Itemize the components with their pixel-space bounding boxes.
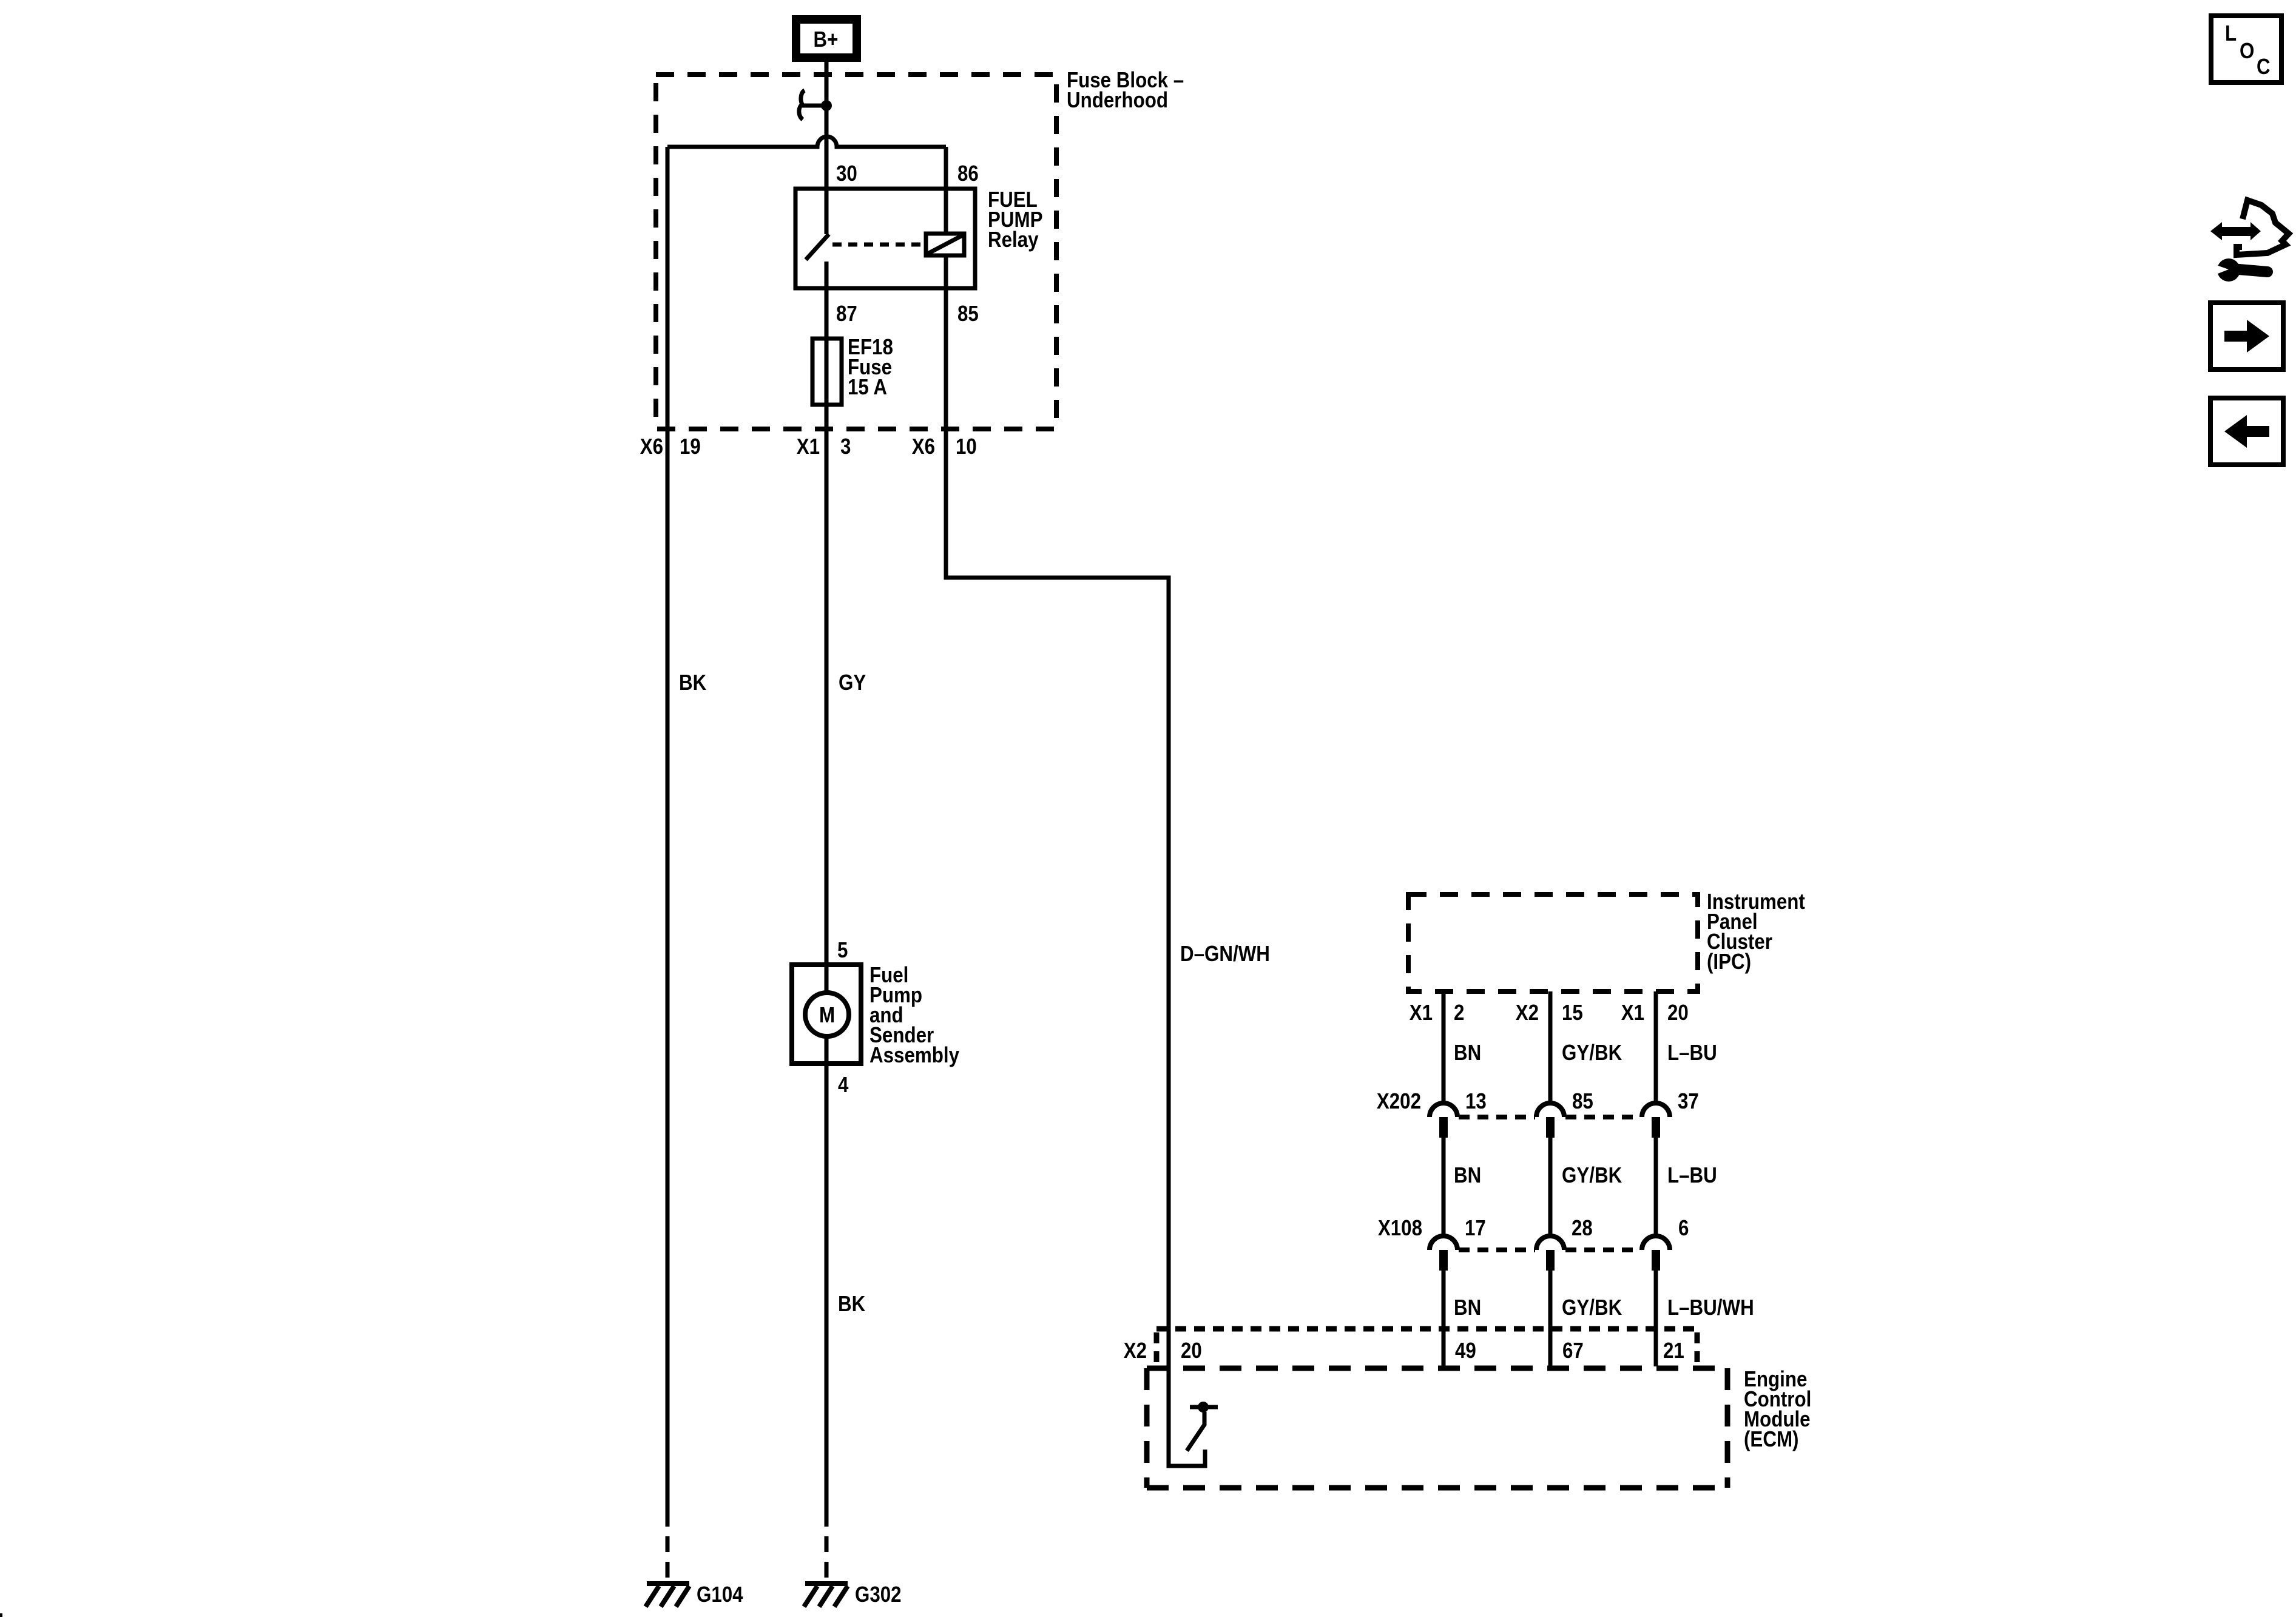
wire relay pin 87 through fuse to pump	[825, 262, 829, 993]
svg-text:86: 86	[957, 161, 979, 186]
svg-text:GY/BK: GY/BK	[1562, 1163, 1622, 1187]
wire bus with hop over pin30 wire	[667, 137, 946, 147]
svg-text:BN: BN	[1454, 1163, 1481, 1187]
connector X108 terminal arcs	[1430, 1236, 1670, 1250]
svg-text:X1: X1	[1410, 1000, 1433, 1025]
connector X108 dashed line	[1459, 1247, 1641, 1252]
svg-text:X108: X108	[1378, 1215, 1422, 1240]
svg-text:M: M	[819, 1002, 835, 1027]
connector label X2 15	[1516, 1000, 1583, 1025]
svg-text:L–BU: L–BU	[1667, 1163, 1717, 1187]
svg-text:B+: B+	[814, 27, 839, 52]
svg-text:3: 3	[840, 434, 851, 459]
svg-text:(IPC): (IPC)	[1707, 949, 1751, 974]
connector X108 pins	[1439, 1250, 1660, 1271]
svg-text:GY: GY	[839, 670, 866, 695]
relay control dashed line	[832, 243, 924, 247]
LOC icon box	[2211, 16, 2281, 83]
wire L-BU/WH X108 to ECM	[1654, 1271, 1658, 1366]
svg-text:5: 5	[837, 937, 848, 962]
wire GY/BK X202 to X108	[1548, 1138, 1553, 1236]
fuse EF18 body	[812, 339, 842, 405]
svg-text:Relay: Relay	[988, 227, 1039, 252]
forward arrow icon box	[2210, 303, 2283, 370]
wire IPC X1-2 BN	[1442, 991, 1446, 1103]
svg-text:BN: BN	[1454, 1295, 1481, 1320]
label X2 20	[1124, 1338, 1202, 1363]
wire L-BU X202 to X108	[1654, 1138, 1658, 1236]
wire GY/BK X108 to ECM	[1548, 1271, 1553, 1366]
connector X202 pins	[1439, 1117, 1660, 1138]
wire B+ to relay pin 30	[825, 62, 829, 234]
svg-text:BK: BK	[679, 670, 706, 695]
svg-text:L: L	[2225, 21, 2237, 46]
wire dashed to ground G302	[825, 1511, 829, 1582]
svg-text:6: 6	[1678, 1215, 1689, 1240]
svg-text:GY/BK: GY/BK	[1562, 1040, 1622, 1065]
svg-text:D–GN/WH: D–GN/WH	[1180, 941, 1270, 966]
svg-text:4: 4	[838, 1072, 848, 1097]
svg-text:G302: G302	[855, 1582, 902, 1607]
wire relay pin 86	[944, 147, 948, 234]
svg-text:L–BU: L–BU	[1667, 1040, 1717, 1065]
svg-text:X2: X2	[1516, 1000, 1539, 1025]
wire BK left branch vertical	[666, 147, 670, 1511]
svg-text:37: 37	[1678, 1089, 1699, 1113]
svg-text:GY/BK: GY/BK	[1562, 1295, 1622, 1320]
wire IPC X1-20 L-BU	[1654, 991, 1658, 1103]
tool icon wrench	[2215, 258, 2267, 282]
wire BN X108 to ECM	[1442, 1271, 1446, 1366]
tool icon double arrow	[2210, 222, 2261, 240]
connector X202 terminal arcs	[1430, 1103, 1670, 1117]
power symbol B+	[792, 15, 861, 62]
fusible link hook symbol	[799, 90, 805, 120]
svg-text:10: 10	[956, 434, 977, 459]
wire BN X202 to X108	[1442, 1138, 1446, 1236]
svg-text:21: 21	[1663, 1338, 1684, 1363]
svg-text:L–BU/WH: L–BU/WH	[1667, 1295, 1754, 1320]
ECM switch junction dot	[1198, 1402, 1209, 1413]
connector label X1 3	[797, 434, 851, 459]
ground G302	[804, 1584, 848, 1607]
connector X202 dashed line	[1459, 1115, 1641, 1119]
junction dot	[821, 100, 832, 111]
svg-text:13: 13	[1465, 1089, 1487, 1113]
svg-text:15 A: 15 A	[848, 374, 887, 399]
svg-text:X1: X1	[797, 434, 820, 459]
svg-text:85: 85	[1572, 1089, 1593, 1113]
connector X2 dashed row	[1156, 1329, 1697, 1364]
back arrow icon box	[2210, 398, 2283, 465]
svg-text:X6: X6	[640, 434, 663, 459]
fuel pump and sender assembly box	[792, 965, 861, 1064]
label X108 17 28 6	[1378, 1215, 1689, 1240]
instrument panel cluster dashed box	[1408, 894, 1698, 991]
svg-text:87: 87	[836, 301, 857, 326]
fuse block underhood dashed box	[656, 75, 1056, 429]
svg-text:67: 67	[1562, 1338, 1584, 1363]
svg-text:BN: BN	[1454, 1040, 1481, 1065]
svg-text:X6: X6	[912, 434, 935, 459]
svg-text:20: 20	[1181, 1338, 1202, 1363]
svg-text:Underhood: Underhood	[1067, 87, 1168, 112]
svg-text:X202: X202	[1377, 1089, 1421, 1113]
wire dashed to ground G104	[666, 1511, 670, 1582]
page corner mark	[0, 1613, 2, 1617]
wire IPC X2-15 GY/BK	[1548, 991, 1553, 1103]
svg-text:30: 30	[836, 161, 857, 186]
relay FUEL PUMP box	[795, 189, 975, 288]
svg-text:19: 19	[680, 434, 701, 459]
svg-text:2: 2	[1454, 1000, 1464, 1025]
engine control module dashed box	[1147, 1368, 1727, 1488]
ECM internal switch arm	[1187, 1412, 1204, 1451]
svg-text:85: 85	[957, 301, 979, 326]
wire hook to junction	[802, 104, 826, 108]
connector label X6 10	[912, 434, 977, 459]
motor M circle	[805, 993, 849, 1036]
ground G104	[646, 1584, 689, 1607]
svg-text:Assembly: Assembly	[869, 1042, 959, 1067]
svg-text:20: 20	[1667, 1000, 1689, 1025]
tool icon part outline	[2237, 200, 2289, 255]
label Fuel Pump and Sender Assembly	[869, 962, 959, 1067]
svg-text:BK: BK	[838, 1291, 865, 1316]
svg-text:17: 17	[1465, 1215, 1486, 1240]
label Fuse Block - Underhood	[1067, 67, 1184, 112]
label X202 13 85 37	[1377, 1089, 1699, 1113]
relay coil	[926, 234, 964, 255]
connector label X1 20	[1621, 1000, 1689, 1025]
connector label X6 19	[640, 434, 701, 459]
wire pump pin 4 down	[825, 1036, 829, 1511]
svg-text:49: 49	[1455, 1338, 1476, 1363]
svg-text:G104: G104	[697, 1582, 743, 1607]
connector label X1 2	[1410, 1000, 1465, 1025]
svg-text:O: O	[2240, 38, 2254, 63]
relay switch arm	[806, 234, 829, 260]
label EF18 Fuse 15 A	[848, 334, 893, 399]
svg-text:X2: X2	[1124, 1338, 1147, 1363]
wire relay 85 to ECM D-GN/WH	[946, 255, 1205, 1466]
svg-text:28: 28	[1572, 1215, 1593, 1240]
svg-text:(ECM): (ECM)	[1744, 1426, 1799, 1451]
ECM switch contact bar	[1190, 1405, 1218, 1409]
svg-text:C: C	[2257, 54, 2271, 79]
svg-text:X1: X1	[1621, 1000, 1644, 1025]
svg-text:15: 15	[1562, 1000, 1583, 1025]
label Instrument Panel Cluster (IPC)	[1707, 889, 1805, 974]
label FUEL PUMP Relay	[988, 187, 1043, 252]
label Engine Control Module (ECM)	[1744, 1366, 1811, 1451]
